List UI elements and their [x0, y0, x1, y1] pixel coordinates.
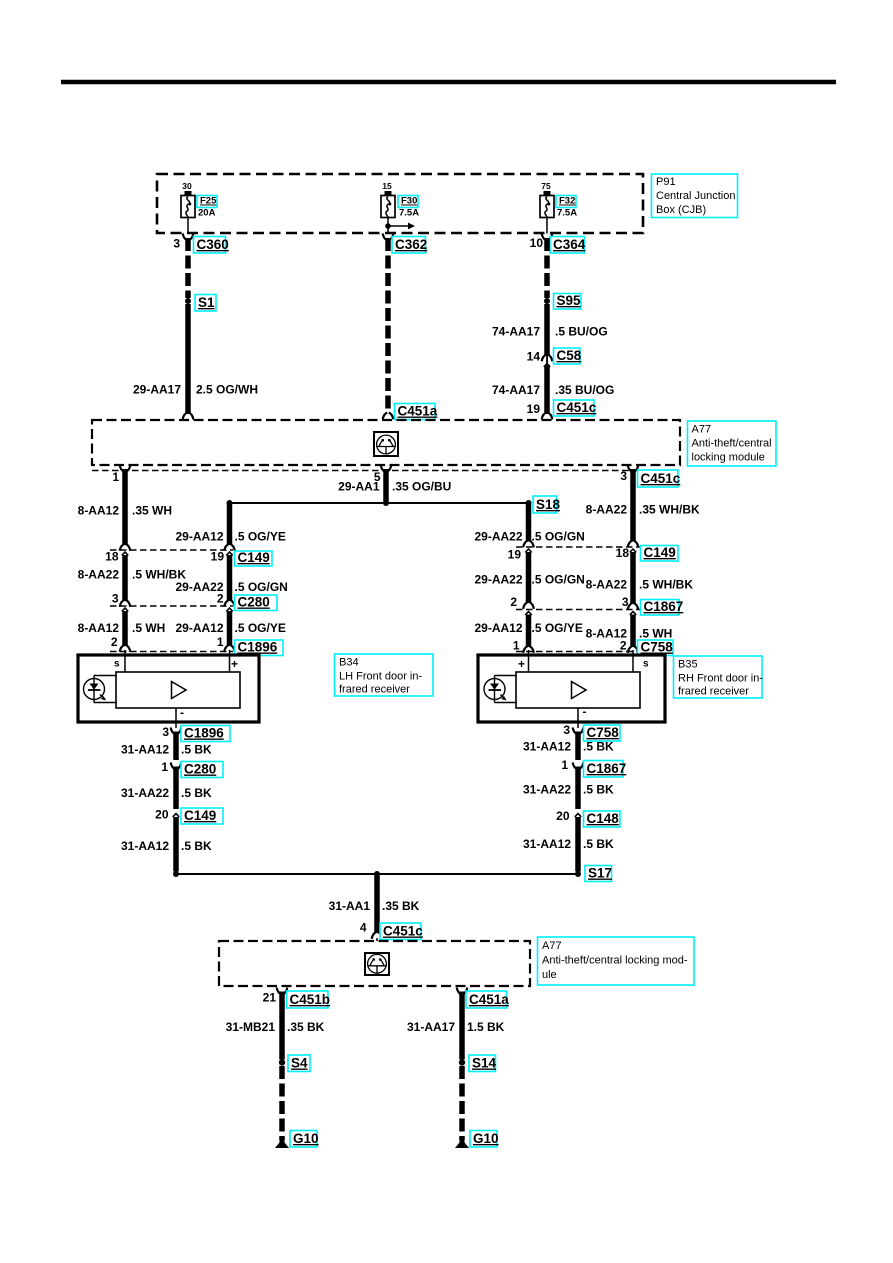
wire 8-AA12 .5 WH — [122, 608, 128, 611]
svg-text:.5 BK: .5 BK — [181, 743, 212, 757]
anti-theft icon lower — [365, 953, 389, 975]
svg-text:1: 1 — [561, 758, 568, 772]
svg-text:LH Front door in-: LH Front door in- — [339, 671, 422, 683]
svg-text:14: 14 — [527, 350, 541, 364]
svg-text:S1: S1 — [198, 295, 215, 310]
wire 8-AA22 .35 WH/BK — [630, 469, 636, 542]
connector C451b pin 21 — [277, 988, 282, 995]
svg-text:21: 21 — [263, 991, 277, 1005]
receiver B35 box — [478, 655, 665, 722]
wire 29-AA17 2.5 OG/WH — [185, 304, 191, 414]
wire C360 to S1 dashed — [185, 238, 191, 298]
wire 74-AA17 .5 BU/OG — [544, 304, 550, 356]
wire 8-AA22 .5 WH/BK right — [630, 549, 636, 552]
svg-text:C451c: C451c — [383, 924, 423, 939]
svg-text:.5 BK: .5 BK — [583, 740, 614, 754]
svg-text:2: 2 — [620, 639, 627, 653]
svg-text:20: 20 — [155, 808, 169, 822]
B34 amplifier — [116, 672, 240, 708]
svg-text:7.5A: 7.5A — [557, 208, 577, 219]
svg-text:S14: S14 — [472, 1056, 497, 1071]
P91 Central Junction Box dashed outline — [157, 174, 643, 233]
svg-text:2: 2 — [111, 635, 118, 649]
svg-text:31-AA1: 31-AA1 — [329, 899, 371, 913]
B34 photodiode — [94, 675, 117, 677]
A77 label — [688, 421, 777, 466]
wire 8-AA22 .5 WH/BK left — [122, 552, 128, 555]
svg-text:.35 WH: .35 WH — [132, 504, 172, 518]
svg-text:20A: 20A — [198, 208, 216, 219]
connector C1896 pin 3 — [171, 728, 176, 735]
svg-text:31-MB21: 31-MB21 — [226, 1020, 276, 1034]
svg-text:C58: C58 — [557, 348, 582, 363]
A77 connector dashed line — [92, 470, 680, 472]
svg-text:ule: ule — [542, 969, 557, 981]
wire 29-AA12 .5 OG/YE lower right — [525, 612, 531, 615]
svg-text:3: 3 — [620, 469, 627, 483]
svg-text:19: 19 — [527, 402, 541, 416]
svg-text:C1896: C1896 — [184, 726, 224, 741]
connector C451a — [395, 404, 436, 420]
svg-text:F30: F30 — [401, 196, 417, 207]
svg-text:29-AA17: 29-AA17 — [133, 383, 181, 397]
A77 pin 1 — [120, 465, 125, 472]
svg-text:C1867: C1867 — [644, 599, 684, 614]
ground bus line — [176, 873, 578, 875]
svg-text:C1867: C1867 — [587, 761, 627, 776]
connector C758 row pins 1 2 — [516, 651, 644, 653]
splice S17 — [575, 871, 581, 877]
svg-text:29-AA12: 29-AA12 — [175, 530, 223, 544]
svg-text:31-AA12: 31-AA12 — [121, 839, 169, 853]
svg-text:29-AA12: 29-AA12 — [474, 621, 522, 635]
svg-text:29-AA22: 29-AA22 — [474, 530, 522, 544]
svg-text:.5 OG/YE: .5 OG/YE — [532, 621, 583, 635]
P91 label — [652, 174, 738, 218]
svg-text:C362: C362 — [395, 237, 427, 252]
svg-text:.35 BU/OG: .35 BU/OG — [555, 383, 614, 397]
svg-text:S18: S18 — [536, 497, 561, 512]
svg-text:29-AA22: 29-AA22 — [474, 573, 522, 587]
svg-text:1.5 BK: 1.5 BK — [467, 1020, 505, 1034]
connector C280 left row — [110, 605, 233, 607]
svg-text:2.5 OG/WH: 2.5 OG/WH — [196, 383, 258, 397]
svg-text:29-AA12: 29-AA12 — [175, 621, 223, 635]
svg-text:3: 3 — [622, 595, 629, 609]
svg-text:G10: G10 — [293, 1131, 319, 1146]
svg-text:15: 15 — [382, 181, 392, 191]
svg-text:.35 OG/BU: .35 OG/BU — [392, 480, 451, 494]
wire 29-AA1 .35 OG/BU — [383, 469, 389, 503]
svg-text:31-AA17: 31-AA17 — [407, 1020, 455, 1034]
svg-text:S4: S4 — [291, 1056, 308, 1071]
svg-text:1: 1 — [161, 760, 168, 774]
svg-text:C758: C758 — [587, 725, 620, 740]
svg-text:Central Junction: Central Junction — [656, 190, 736, 202]
svg-text:31-AA12: 31-AA12 — [523, 837, 571, 851]
svg-text:1: 1 — [513, 639, 520, 653]
connector C149 right row — [516, 546, 644, 548]
splice S1 — [185, 298, 191, 304]
B34 label — [335, 654, 434, 696]
svg-text:3: 3 — [563, 723, 570, 737]
wire 29-AA22 .5 OG/GN right — [525, 549, 531, 552]
svg-text:3: 3 — [173, 237, 180, 251]
splice S4 — [279, 1059, 285, 1065]
svg-text:.5 WH/BK: .5 WH/BK — [639, 578, 693, 592]
svg-text:4: 4 — [360, 921, 367, 935]
svg-text:Anti-theft/central: Anti-theft/central — [692, 438, 772, 450]
B35 photodiode — [495, 675, 518, 677]
svg-text:C148: C148 — [587, 811, 620, 826]
svg-text:.5 BK: .5 BK — [181, 786, 212, 800]
wire 29-AA22 .5 OG/GN upper — [526, 503, 532, 542]
connector C1867 pin 1 — [573, 763, 578, 770]
svg-text:.5 OG/GN: .5 OG/GN — [532, 573, 585, 587]
splice S14 — [459, 1059, 465, 1065]
svg-text:+: + — [231, 657, 238, 671]
wire S14 to G10 dashed — [459, 1066, 465, 1140]
svg-text:8-AA22: 8-AA22 — [78, 568, 120, 582]
svg-text:.35 WH/BK: .35 WH/BK — [639, 503, 700, 517]
wire C364 to S95 dashed — [544, 238, 550, 298]
svg-text:2: 2 — [510, 595, 517, 609]
svg-text:1: 1 — [112, 470, 119, 484]
svg-text:8-AA12: 8-AA12 — [78, 504, 120, 518]
svg-text:10: 10 — [530, 236, 544, 250]
title rule — [61, 80, 836, 84]
svg-text:S95: S95 — [557, 293, 582, 308]
wire 8-AA12 .5 WH right — [630, 612, 636, 615]
svg-text:Box (CJB): Box (CJB) — [656, 204, 706, 216]
splice S18 — [526, 500, 532, 506]
connector C148 pin 20 — [575, 814, 581, 817]
svg-text:frared receiver: frared receiver — [678, 686, 749, 698]
connector C364 pin 10 — [542, 234, 547, 241]
svg-text:.5 OG/GN: .5 OG/GN — [235, 580, 288, 594]
connector C360 pin 3 — [183, 234, 188, 241]
svg-text:C758: C758 — [641, 640, 674, 655]
wire C362 to C451a dashed — [385, 238, 391, 409]
svg-text:.5 OG/YE: .5 OG/YE — [235, 530, 286, 544]
B35 amplifier — [516, 672, 640, 708]
svg-text:31-AA22: 31-AA22 — [121, 786, 169, 800]
B35 label — [674, 656, 763, 698]
svg-text:31-AA22: 31-AA22 — [523, 783, 571, 797]
connector C58 pin 14 — [542, 355, 547, 362]
svg-text:B35: B35 — [678, 659, 698, 671]
svg-text:1: 1 — [217, 635, 224, 649]
wire 31-AA1 .35 BK — [374, 874, 380, 933]
A77 lower label — [538, 937, 695, 985]
svg-text:.5 OG/YE: .5 OG/YE — [235, 621, 286, 635]
node line to S18 — [230, 502, 529, 504]
wire 31-AA17 1.5 BK — [459, 992, 465, 1060]
wire 31-AA22 .5 BK left — [173, 767, 179, 810]
ground G10 right — [455, 1140, 469, 1149]
svg-text:20: 20 — [556, 809, 570, 823]
connector C362 — [383, 234, 388, 241]
svg-text:C280: C280 — [184, 762, 216, 777]
svg-text:.35 BK: .35 BK — [382, 899, 420, 913]
svg-text:.5 BK: .5 BK — [181, 839, 212, 853]
connector C149 pin 20 — [173, 814, 179, 817]
svg-text:3: 3 — [162, 725, 169, 739]
svg-text:S17: S17 — [588, 866, 612, 881]
svg-text:29-AA1: 29-AA1 — [338, 480, 380, 494]
svg-text:C451a: C451a — [398, 404, 438, 419]
svg-text:.5 BK: .5 BK — [583, 837, 614, 851]
svg-text:8-AA22: 8-AA22 — [586, 503, 628, 517]
splice S95 — [544, 298, 550, 304]
svg-text:C149: C149 — [184, 808, 216, 823]
svg-text:B34: B34 — [339, 657, 359, 669]
svg-text:8-AA12: 8-AA12 — [78, 621, 120, 635]
svg-text:.5 WH: .5 WH — [639, 627, 672, 641]
svg-text:C364: C364 — [553, 237, 586, 252]
svg-text:31-AA12: 31-AA12 — [523, 740, 571, 754]
wire 31-AA12 .5 BK left lower — [173, 817, 179, 872]
wire S4 to G10 dashed — [279, 1066, 285, 1140]
wire 31-AA12 .5 BK right lower — [575, 817, 581, 872]
wire 29-AA12 .5 OG/YE left — [227, 503, 233, 545]
connector C758 pin 3 — [573, 728, 578, 735]
svg-text:C280: C280 — [238, 595, 270, 610]
svg-text:74-AA17: 74-AA17 — [492, 383, 540, 397]
svg-text:C451b: C451b — [290, 992, 331, 1007]
connector C1896 row pins 2 1 — [110, 651, 233, 653]
receiver B34 box — [78, 655, 259, 722]
svg-text:RH Front door in-: RH Front door in- — [678, 673, 763, 685]
connector C1867 right row — [516, 609, 644, 611]
svg-text:18: 18 — [105, 550, 119, 564]
connector C451a — [457, 988, 462, 995]
svg-text:C451c: C451c — [641, 471, 681, 486]
svg-text:75: 75 — [541, 181, 551, 191]
connector C149 left row — [110, 549, 233, 551]
svg-text:+: + — [518, 657, 525, 671]
svg-text:A77: A77 — [542, 940, 562, 952]
svg-text:G10: G10 — [473, 1131, 499, 1146]
svg-text:Anti-theft/central locking mod: Anti-theft/central locking mod- — [542, 955, 688, 967]
svg-text:s: s — [643, 659, 649, 670]
svg-text:31-AA12: 31-AA12 — [121, 743, 169, 757]
wire 29-AA12 .5 OG/YE lower left — [226, 608, 232, 611]
svg-text:.5 BU/OG: .5 BU/OG — [555, 325, 608, 339]
wire 31-MB21 .35 BK — [279, 992, 285, 1060]
anti-theft icon — [374, 432, 398, 456]
A77 pin 3 connector C451c — [628, 465, 633, 472]
wire 29-AA22 .5 OG/GN left — [226, 552, 232, 555]
svg-text:C149: C149 — [238, 550, 270, 565]
svg-text:.5 WH: .5 WH — [132, 621, 165, 635]
wire 31-AA22 .5 BK right — [575, 767, 581, 810]
svg-text:8-AA22: 8-AA22 — [586, 578, 628, 592]
A77 lower module dashed outline — [219, 941, 530, 986]
svg-text:C360: C360 — [197, 237, 229, 252]
svg-text:2: 2 — [217, 592, 224, 606]
svg-text:30: 30 — [182, 181, 192, 191]
svg-text:.5 BK: .5 BK — [583, 783, 614, 797]
A77 anti-theft module dashed outline — [92, 420, 680, 465]
svg-text:19: 19 — [508, 548, 522, 562]
svg-text:s: s — [114, 659, 120, 670]
wire 8-AA12 .35 WH — [122, 469, 128, 545]
svg-text:P91: P91 — [656, 176, 676, 188]
svg-text:C149: C149 — [644, 545, 676, 560]
svg-text:74-AA17: 74-AA17 — [492, 325, 540, 339]
svg-text:frared receiver: frared receiver — [339, 684, 410, 696]
svg-text:-: - — [583, 705, 587, 719]
svg-text:-: - — [180, 706, 184, 720]
svg-text:F32: F32 — [559, 196, 575, 207]
svg-text:C451a: C451a — [469, 992, 509, 1007]
svg-text:.35 BK: .35 BK — [287, 1020, 325, 1034]
svg-text:A77: A77 — [692, 424, 712, 436]
wire 31-AA12 .5 BK right upper — [575, 732, 581, 761]
svg-text:C451c: C451c — [557, 400, 597, 415]
junction dot and arrow to other circuits — [388, 225, 408, 227]
wire 31-AA12 .5 BK left upper — [173, 732, 179, 761]
svg-text:.5 OG/GN: .5 OG/GN — [532, 530, 585, 544]
svg-text:7.5A: 7.5A — [399, 208, 419, 219]
svg-text:18: 18 — [616, 546, 630, 560]
svg-text:C1896: C1896 — [238, 640, 278, 655]
A77 pin 5 — [381, 465, 386, 472]
svg-text:3: 3 — [112, 592, 119, 606]
wire 74-AA17 .35 BU/OG — [544, 364, 550, 367]
ground G10 left — [275, 1140, 289, 1149]
connector C280 pin 1 — [171, 763, 176, 770]
svg-text:locking module: locking module — [692, 452, 765, 464]
svg-text:F25: F25 — [200, 196, 217, 207]
svg-text:19: 19 — [211, 550, 225, 564]
